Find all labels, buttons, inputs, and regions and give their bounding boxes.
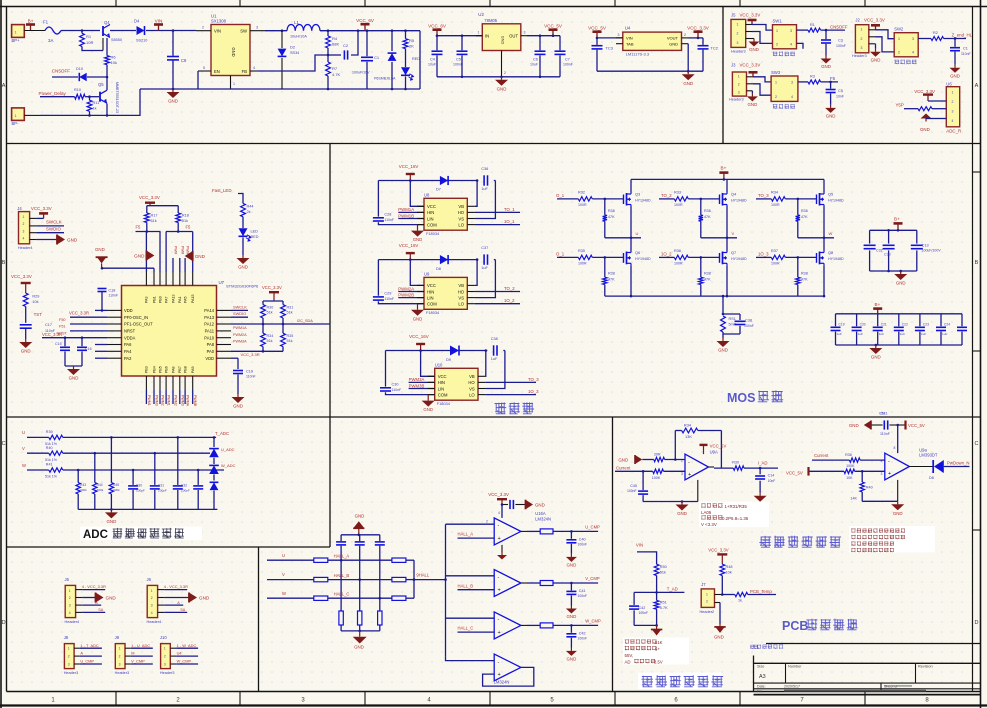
svg-text:1: 1 (164, 647, 166, 651)
inductor L1 (265, 30, 287, 32)
phase node column 1 (630, 207, 632, 251)
svg-text:-: - (688, 459, 690, 465)
svg-text:Header4: Header4 (147, 620, 162, 624)
svg-text:R51: R51 (660, 601, 667, 605)
resistor R6 (105, 56, 110, 65)
svg-text:R31: R31 (287, 306, 294, 310)
svg-text:HIN: HIN (438, 380, 445, 385)
svg-text:R35: R35 (578, 249, 585, 253)
power VCC_5V opamp U9 (700, 444, 708, 446)
svg-text:C20: C20 (860, 323, 866, 327)
ground GND driver 1 (417, 225, 419, 231)
svg-text:3: 3 (69, 604, 71, 608)
svg-text:4 - VCC_3.3R: 4 - VCC_3.3R (82, 584, 106, 589)
ground arrow top left (146, 251, 154, 261)
resistor filter V 2 (392, 577, 406, 581)
svg-text:C7: C7 (565, 58, 570, 62)
svg-text:D: D (2, 620, 6, 626)
svg-text:100nF: 100nF (836, 44, 846, 48)
resistor R35 gate (578, 255, 592, 259)
svg-text:VCC_3.3V: VCC_3.3V (914, 89, 935, 94)
capacitor C1 sw2 (954, 37, 957, 40)
capacitor C25 bank (961, 314, 963, 326)
capacitor opamp decouple (502, 504, 508, 506)
svg-text:LED: LED (251, 230, 259, 234)
svg-text:C42: C42 (579, 631, 586, 635)
ground GND J6 (164, 597, 189, 599)
resistor R43 column (77, 469, 80, 472)
ground GND U9A (681, 500, 684, 503)
svg-text:GND: GND (501, 36, 505, 45)
svg-text:Q8: Q8 (828, 250, 833, 255)
net PWM1A (398, 211, 424, 213)
resistor R53 (735, 592, 748, 596)
net PF0 (70, 316, 107, 318)
power VCC_3.3V (697, 32, 699, 38)
svg-text:R39: R39 (732, 460, 739, 464)
svg-text:C37: C37 (481, 246, 488, 250)
svg-text:VCC_16V: VCC_16V (399, 164, 419, 169)
resistor filter bottom 1 (340, 560, 342, 611)
svg-text:LM393DT: LM393DT (919, 453, 938, 458)
svg-text:SWCLK: SWCLK (233, 304, 247, 309)
resistor R39 output (733, 466, 744, 470)
svg-text:W_CMP: W_CMP (177, 659, 192, 664)
net PF1 (70, 323, 107, 325)
svg-text:C38: C38 (745, 319, 752, 323)
svg-text:J3: J3 (731, 63, 736, 68)
svg-text:M: M (131, 651, 134, 656)
svg-text:C1: C1 (963, 47, 968, 51)
svg-text:1 - T_ADC: 1 - T_ADC (80, 643, 98, 648)
svg-text:LIN: LIN (427, 295, 434, 300)
svg-text:51k: 51k (267, 339, 273, 343)
svg-text:PA13: PA13 (204, 315, 214, 320)
svg-text:2: 2 (23, 222, 25, 226)
section label ADC (80, 527, 202, 541)
svg-text:C1: C1 (374, 55, 380, 60)
svg-text:PA7: PA7 (164, 296, 168, 303)
ground GND C19 (237, 394, 239, 397)
resistor R40 (49, 451, 63, 455)
net HALL_A (458, 537, 495, 539)
wire filter top rail (341, 534, 380, 536)
svg-text:TO_2: TO_2 (504, 286, 515, 291)
svg-text:Header4: Header4 (18, 246, 33, 250)
svg-text:EN: EN (214, 69, 220, 74)
svg-text:COM: COM (427, 222, 437, 227)
svg-text:VCC_5V: VCC_5V (786, 471, 803, 476)
MOSFET Q6 (630, 251, 632, 253)
svg-text:HALL_A: HALL_A (334, 554, 350, 559)
note text pcb temp (750, 645, 754, 649)
svg-text:68K: 68K (332, 42, 339, 47)
svg-text:VDD: VDD (124, 308, 133, 313)
net TST (25, 307, 27, 323)
power VCC_5V LDO input (596, 32, 598, 38)
svg-text:VDDA: VDDA (124, 335, 136, 340)
ground GND opamp1 (501, 545, 503, 552)
wire inverting input 2 (446, 575, 495, 577)
svg-text:1: 1 (706, 592, 708, 596)
resistor R37 gate (771, 255, 785, 259)
svg-text:10k: 10k (111, 60, 117, 65)
svg-text:1uF: 1uF (942, 332, 947, 336)
svg-text:GND: GND (669, 42, 678, 47)
wire feedback loop (675, 430, 681, 432)
svg-text:3: 3 (861, 46, 863, 50)
resistor filter V 1 (314, 577, 328, 581)
svg-text:U4: U4 (177, 651, 183, 656)
resistor R1 (81, 29, 84, 32)
svg-text:U_CMP: U_CMP (585, 525, 600, 530)
svg-text:55V,: 55V, (625, 653, 634, 658)
svg-text:R5: R5 (409, 38, 415, 43)
resistor R35 (282, 324, 284, 333)
svg-text:Power_Delay: Power_Delay (39, 91, 67, 96)
svg-text:PB0: PB0 (158, 296, 162, 303)
svg-text:100pF: 100pF (181, 489, 190, 493)
net TO_2 (475, 291, 520, 293)
svg-text:U_ADC: U_ADC (221, 447, 235, 452)
wire right loop (419, 31, 421, 89)
svg-text:VS: VS (458, 216, 464, 221)
svg-text:R44: R44 (97, 483, 103, 487)
svg-text:+: + (498, 588, 501, 594)
resistor R7 (326, 62, 331, 76)
ground GND U4 (687, 70, 690, 73)
svg-text:VIN: VIN (155, 18, 163, 23)
svg-text:C33: C33 (884, 253, 891, 257)
svg-text:R38: R38 (845, 453, 852, 457)
svg-text:GND: GND (871, 57, 881, 62)
wire top rail driver 2 (378, 259, 477, 261)
svg-text:I2C_SDA: I2C_SDA (297, 319, 313, 323)
wire VB riser driver 1 (475, 181, 477, 207)
U7 top pins (145, 272, 147, 286)
svg-text:C36: C36 (481, 167, 488, 171)
svg-text:F18034: F18034 (426, 310, 440, 315)
svg-text:PA1: PA1 (178, 296, 182, 303)
net V_AD (656, 576, 658, 601)
svg-text:10K: 10K (846, 476, 853, 480)
svg-text:PWMA: PWMA (186, 395, 190, 407)
wire LED to gnd (242, 238, 244, 256)
svg-text:W_ADC: W_ADC (221, 463, 236, 468)
svg-text:R50: R50 (660, 565, 667, 569)
svg-text:U10: U10 (435, 363, 443, 368)
svg-text:PB6: PB6 (164, 366, 168, 373)
resistor R33 gate (674, 197, 688, 201)
svg-text:2: 2 (898, 51, 900, 55)
resistor R39 (49, 435, 63, 439)
svg-text:C17: C17 (45, 323, 52, 327)
capacitor C6 (539, 34, 542, 37)
phase node column 2 (726, 207, 728, 251)
wire U16D feedback (483, 667, 534, 686)
svg-text:J6: J6 (147, 577, 152, 582)
svg-text:HALL_B: HALL_B (458, 583, 474, 588)
capacitor C19 bank (835, 314, 837, 326)
svg-text:1: 1 (776, 29, 778, 33)
net 1O_3 (486, 394, 536, 396)
svg-text:PA10: PA10 (204, 335, 214, 340)
wire left loop driver 3 (385, 351, 387, 387)
svg-text:C41: C41 (579, 589, 586, 593)
ground GND ADC (110, 508, 113, 511)
svg-text:1O_3: 1O_3 (758, 252, 769, 257)
svg-text:V: V (22, 446, 25, 451)
svg-text:VCC_5V: VCC_5V (710, 444, 727, 449)
wire U4 gnd (687, 44, 689, 71)
wire bottom rail left (24, 114, 40, 116)
svg-text:3: 3 (790, 29, 792, 33)
svg-text:3: 3 (618, 33, 620, 37)
ground GND filter bottom (358, 630, 361, 633)
svg-text:GND: GND (168, 99, 178, 104)
wire inverting input (642, 459, 654, 461)
svg-text:PWM1A: PWM1A (398, 207, 414, 212)
svg-text:Revision: Revision (918, 664, 933, 668)
wire left loop driver 2 (377, 260, 379, 296)
svg-text:VCC_3.3V: VCC_3.3V (262, 285, 282, 290)
svg-text:3: 3 (68, 663, 70, 667)
svg-text:MOS: MOS (727, 391, 755, 405)
capacitor C17 (20, 324, 32, 326)
svg-text:PCB_Temp: PCB_Temp (750, 589, 772, 594)
resistor output 3 (540, 623, 553, 628)
wire comparator bottom (862, 500, 898, 502)
svg-text:PA13: PA13 (171, 294, 175, 303)
capacitor C45 (642, 470, 645, 473)
net VDD right (231, 357, 238, 359)
svg-text:VCC_3.3V: VCC_3.3V (687, 26, 710, 31)
svg-text:F5: F5 (830, 76, 836, 81)
resistor R50 (654, 564, 659, 575)
svg-text:LM1117S-3.3: LM1117S-3.3 (626, 52, 650, 57)
svg-text:A3: A3 (759, 674, 766, 680)
svg-text:VS: VS (458, 295, 464, 300)
svg-text:4: 4 (253, 66, 255, 70)
svg-text:R38: R38 (801, 272, 808, 276)
svg-text:U6: U6 (946, 81, 952, 86)
resistor filter bottom 2 (359, 580, 361, 611)
svg-text:T_ADC: T_ADC (215, 431, 229, 436)
svg-text:300k: 300k (97, 488, 104, 492)
diode D11 (213, 436, 216, 439)
capacitor C15 (64, 336, 67, 339)
svg-text:R11: R11 (93, 101, 100, 105)
svg-text:2: 2 (775, 95, 777, 99)
svg-text:C30: C30 (136, 484, 142, 488)
svg-text:RED: RED (251, 235, 259, 239)
svg-text:C31: C31 (158, 484, 164, 488)
op-amp comparator U9a (885, 453, 910, 480)
svg-text:GND: GND (21, 349, 31, 354)
U1 pin 4 FB (250, 70, 258, 72)
svg-text:2: 2 (776, 43, 778, 47)
svg-text:C31: C31 (881, 411, 888, 415)
svg-text:VIN: VIN (214, 29, 221, 34)
svg-text:1: 1 (119, 647, 121, 651)
svg-text:51k: 51k (660, 571, 666, 575)
svg-text:Q5: Q5 (828, 191, 833, 196)
wire temp gnd (719, 603, 721, 625)
svg-text:HY1948D: HY1948D (731, 199, 747, 203)
wire vin bottom (634, 624, 657, 626)
svg-text:2: 2 (861, 37, 863, 41)
svg-text:TO_3: TO_3 (528, 377, 539, 382)
op-amp U16 2 (494, 570, 521, 597)
svg-text:4: 4 (69, 611, 71, 615)
svg-text:3: 3 (256, 26, 258, 30)
svg-text:J9: J9 (115, 635, 120, 640)
svg-text:VCC_16V: VCC_16V (399, 243, 419, 248)
wire top riser 4 (165, 232, 167, 273)
svg-text:VCC_6V: VCC_6V (356, 18, 375, 23)
wire LDO ground rail (597, 70, 703, 72)
svg-text:PWMB: PWMB (193, 395, 197, 407)
capacitor C1 (366, 29, 369, 32)
svg-text:PWM1: PWM1 (147, 395, 151, 406)
capacitor C20 bank (856, 314, 858, 326)
svg-text:100pF: 100pF (158, 489, 167, 493)
svg-text:GND: GND (107, 519, 117, 524)
svg-text:1 - U_ADC: 1 - U_ADC (131, 643, 150, 648)
svg-text:1 - W_ADC: 1 - W_ADC (177, 643, 197, 648)
svg-text:PWM3A: PWM3A (233, 340, 247, 344)
svg-text:VS: VS (469, 386, 475, 391)
wire Q4 base to R6 (106, 38, 108, 56)
svg-text:HO: HO (458, 289, 465, 294)
svg-text:R2: R2 (933, 31, 938, 35)
svg-text:Current: Current (616, 465, 631, 470)
resistor filter W 1 (314, 596, 328, 600)
svg-text:GND: GND (535, 503, 545, 508)
resistor R36 input (653, 469, 664, 473)
svg-text:V <3.3V: V <3.3V (701, 522, 717, 527)
op-amp U16 3 (494, 612, 521, 639)
svg-text:100uF/16V: 100uF/16V (352, 71, 370, 75)
svg-text:10nF: 10nF (768, 479, 776, 483)
svg-text:PWM: PWM (186, 246, 190, 254)
svg-text:PWM1: PWM1 (167, 395, 171, 406)
resistor pulldown bottom column 1 (604, 256, 607, 259)
svg-text:100nF: 100nF (578, 594, 588, 598)
svg-text:9HALL: 9HALL (416, 572, 429, 577)
svg-text:Q5: Q5 (98, 82, 104, 87)
svg-text:-: - (498, 660, 500, 666)
svg-text:GND: GND (497, 86, 507, 91)
wire temp divider (721, 576, 723, 595)
svg-text:HO: HO (458, 210, 465, 215)
svg-text:A: A (2, 83, 6, 89)
resistor filter U 1 (314, 558, 328, 562)
svg-text:D8: D8 (436, 266, 441, 271)
resistor R44 column (94, 452, 97, 455)
svg-text:D10: D10 (76, 67, 83, 71)
svg-text:PB1: PB1 (152, 296, 156, 303)
svg-text:4: 4 (23, 237, 25, 241)
svg-text:1: 1 (23, 215, 25, 219)
svg-text:PWM3A: PWM3A (409, 377, 425, 382)
svg-text:F18034: F18034 (437, 401, 451, 406)
svg-text:C38: C38 (491, 337, 498, 341)
svg-text:110nF: 110nF (392, 388, 402, 392)
svg-text:R36: R36 (674, 249, 681, 253)
MOSFET Q7 (726, 251, 728, 253)
svg-text:1: 1 (233, 82, 235, 86)
net SWCLK (36, 225, 64, 227)
svg-text:1: 1 (738, 75, 740, 79)
svg-text:3: 3 (952, 110, 954, 114)
wire output 1 (521, 530, 527, 532)
svg-text:PA4: PA4 (124, 349, 132, 354)
svg-text:2: 2 (486, 519, 488, 523)
svg-text:100uF/100V: 100uF/100V (922, 249, 942, 253)
svg-text:C3: C3 (838, 39, 843, 43)
wire VCC riser driver 2 (410, 260, 424, 286)
wire Q5 collector (106, 77, 108, 90)
net PA6 (95, 344, 107, 346)
svg-text:PWM2A: PWM2A (398, 286, 414, 291)
capacitor C3 sw1 (825, 29, 828, 32)
svg-text:GND: GND (233, 404, 243, 409)
svg-text:GND: GND (69, 376, 79, 381)
U1 pin 2 VIN (196, 30, 211, 32)
svg-text:VB: VB (458, 283, 464, 288)
resistor R30 (261, 305, 266, 318)
svg-text:14K: 14K (850, 496, 857, 500)
diode D3 TVS (391, 31, 393, 51)
ground GND comparator (897, 501, 899, 504)
svg-text:TO_1: TO_1 (504, 207, 515, 212)
svg-text:J5: J5 (65, 577, 70, 582)
svg-text:1: 1 (15, 31, 17, 35)
MOSFET Q5 (823, 179, 825, 192)
ground GND power input (172, 88, 175, 91)
net HALL (414, 579, 446, 581)
note text vin (623, 638, 689, 665)
wire inverting input 3 (446, 617, 495, 619)
svg-text:VIN: VIN (626, 36, 633, 41)
svg-text:A: A (975, 83, 979, 89)
svg-text:GND: GND (748, 102, 758, 107)
svg-text:VCC_3.3V: VCC_3.3V (488, 492, 509, 497)
capacitor C38 shunt (739, 314, 741, 320)
svg-text:PWM3: PWM3 (180, 395, 184, 406)
svg-text:1: 1 (68, 647, 70, 651)
connector BP+ (12, 25, 25, 38)
sheet border frame (0, 0, 2, 708)
svg-text:3A: 3A (48, 38, 53, 43)
wire filter bottom rail (341, 630, 380, 632)
net PWM3A (409, 381, 435, 383)
svg-text:Q7: Q7 (731, 250, 736, 255)
svg-text:VCC_3.3V: VCC_3.3V (864, 18, 885, 23)
svg-text:-: - (498, 523, 500, 529)
section label pre-driver (495, 402, 507, 413)
net PWM1B (398, 218, 424, 220)
svg-text:5.7K: 5.7K (660, 606, 668, 610)
svg-text:U_CMP: U_CMP (80, 659, 94, 664)
svg-text:VCC_3.3V: VCC_3.3V (708, 547, 728, 552)
wire Q4 to D4 (110, 30, 136, 32)
capacitor C42 vin (656, 591, 658, 593)
svg-text:110nF: 110nF (246, 375, 256, 379)
svg-text:4 - VCC_3.3R: 4 - VCC_3.3R (164, 584, 188, 589)
wire top riser 8 (192, 232, 194, 273)
